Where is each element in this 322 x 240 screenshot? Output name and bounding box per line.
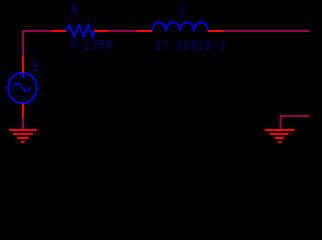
wire: source E bottom node to left ground (22, 117, 24, 130)
ground (left, below source E) (9, 130, 37, 142)
inductor L (152, 22, 208, 31)
wire: right edge to right ground (281, 116, 310, 130)
voltage source E plus mark (21, 74, 24, 77)
wire: source E top node to resistor R pin 1 (23, 31, 52, 56)
resistor R pin 1 (52, 30, 66, 32)
voltage source E sine wave (13, 84, 31, 91)
resistor R (66, 25, 94, 37)
inductor L pin 1 (137, 30, 152, 32)
resistor R pin 2 (94, 30, 109, 32)
inductor L pin 2 (208, 30, 224, 32)
svg-text:R: R (72, 2, 78, 20)
wire: resistor R pin 2 to inductor L pin 1 (109, 30, 137, 32)
ground (right) (264, 130, 294, 142)
voltage source E body (8, 73, 37, 104)
svg-text:0.1756: 0.1756 (71, 38, 114, 54)
voltage source E pin bottom (22, 104, 24, 118)
svg-text:E: E (33, 58, 39, 76)
svg-text:L: L (180, 1, 186, 19)
wire: inductor L pin 2 to right edge (223, 30, 310, 32)
voltage source E pin top (22, 56, 24, 73)
svg-text:17.6662e-3: 17.6662e-3 (155, 38, 226, 54)
